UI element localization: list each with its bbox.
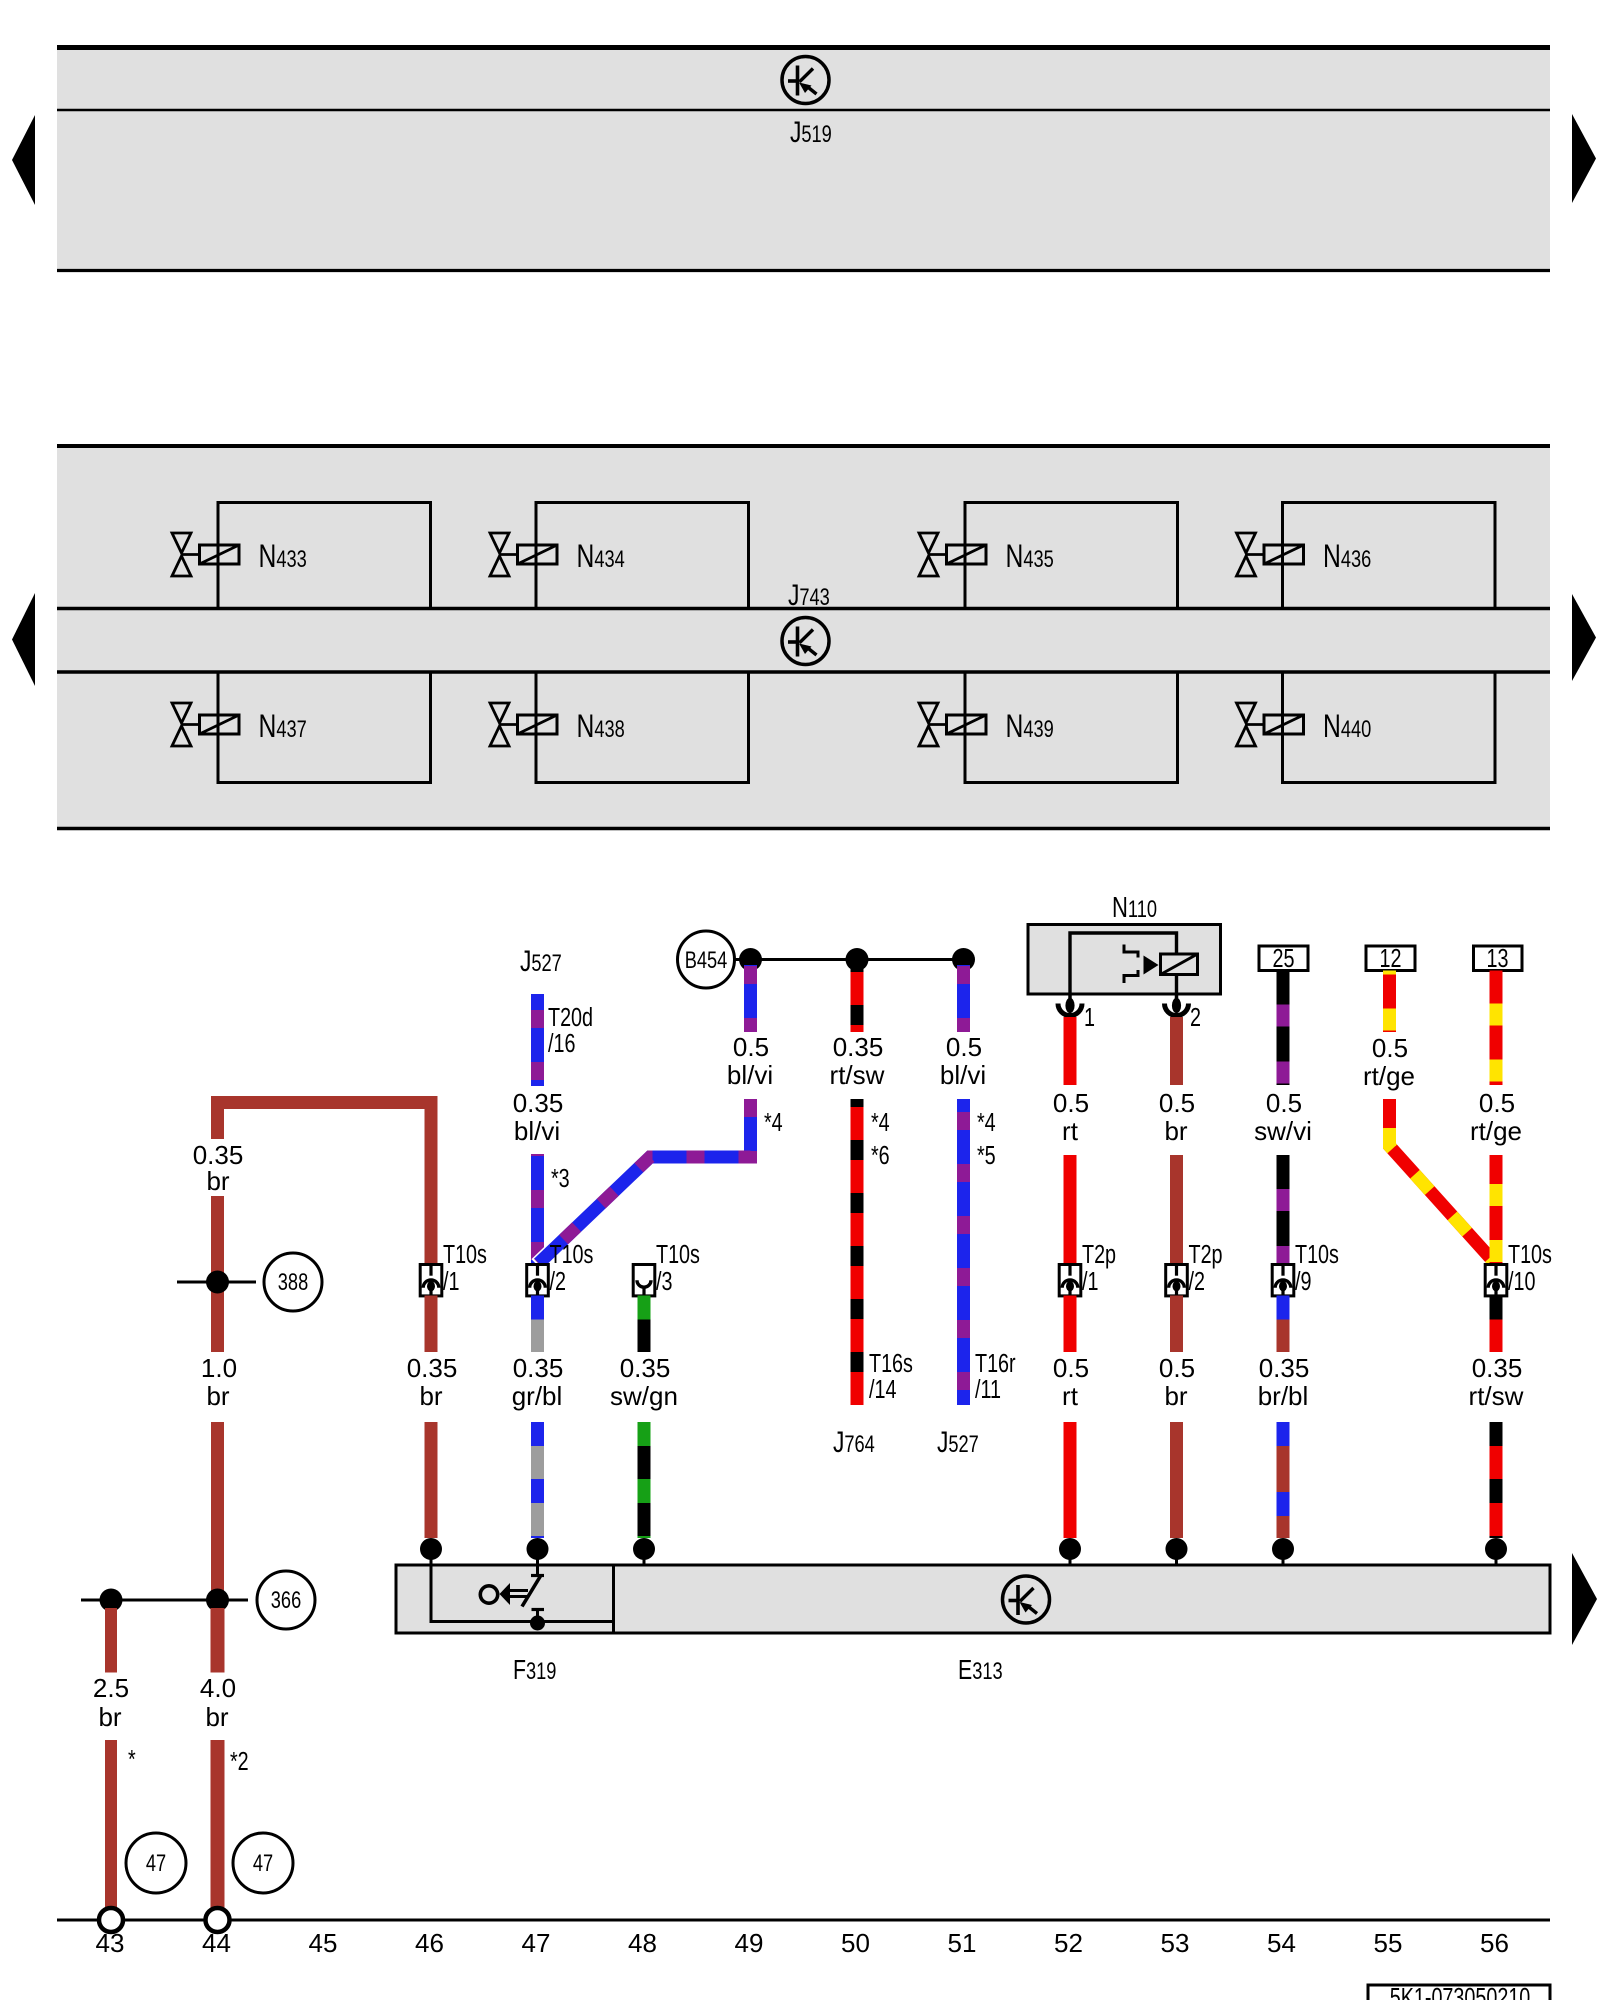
svg-text:56: 56 xyxy=(1480,1928,1509,1958)
svg-text:/1: /1 xyxy=(443,1266,459,1295)
svg-text:T10s: T10s xyxy=(656,1239,700,1268)
junction dot col51 xyxy=(952,948,975,971)
svg-text:49: 49 xyxy=(735,1928,764,1958)
valve N436 xyxy=(1237,503,1496,610)
control unit J519 band xyxy=(57,47,1550,271)
svg-text:br: br xyxy=(419,1381,442,1411)
svg-text:1: 1 xyxy=(1084,1002,1095,1031)
svg-text:T10s: T10s xyxy=(1508,1239,1552,1268)
valve N437 xyxy=(172,672,431,783)
svg-text:T10s: T10s xyxy=(1295,1239,1339,1268)
N110 internal wiring xyxy=(1070,933,1177,994)
svg-text:0.35: 0.35 xyxy=(1472,1353,1523,1383)
ground terminal col43 xyxy=(99,1908,123,1932)
wire rt/sw col56 to E313 xyxy=(1490,1422,1503,1538)
junction dot col52 at E313 xyxy=(1059,1538,1081,1565)
svg-text:12: 12 xyxy=(1380,943,1402,972)
svg-text:rt/sw: rt/sw xyxy=(1469,1381,1524,1411)
svg-text:T2p: T2p xyxy=(1082,1239,1116,1268)
svg-text:/9: /9 xyxy=(1295,1266,1311,1295)
svg-text:*6: *6 xyxy=(871,1140,890,1169)
svg-text:52: 52 xyxy=(1054,1928,1083,1958)
ground terminal col44 xyxy=(206,1908,230,1932)
node 388 junction dot xyxy=(206,1271,229,1294)
wire rt col52 below connector xyxy=(1064,1296,1077,1353)
continuation arrow right (E313) xyxy=(1572,1553,1597,1645)
svg-text:rt/ge: rt/ge xyxy=(1470,1116,1522,1146)
wire br/bl col54 to E313 xyxy=(1277,1422,1290,1538)
svg-text:J527: J527 xyxy=(937,1425,979,1459)
svg-text:/3: /3 xyxy=(656,1266,672,1295)
svg-text:5K1-073050210: 5K1-073050210 xyxy=(1390,1982,1531,2000)
svg-text:47: 47 xyxy=(253,1850,273,1877)
svg-text:45: 45 xyxy=(309,1928,338,1958)
wire br col53 below connector xyxy=(1170,1296,1183,1353)
svg-text:br: br xyxy=(205,1702,228,1732)
svg-text:rt/ge: rt/ge xyxy=(1363,1061,1415,1091)
valve N434 xyxy=(490,503,749,610)
svg-text:/2: /2 xyxy=(550,1266,566,1295)
svg-text:rt: rt xyxy=(1062,1116,1079,1146)
connector T10s/10 xyxy=(1485,1265,1507,1296)
svg-text:25: 25 xyxy=(1273,943,1295,972)
svg-text:*4: *4 xyxy=(871,1107,890,1136)
connector T2p/1 xyxy=(1059,1265,1081,1296)
wire br col46 to E313 xyxy=(425,1422,438,1538)
wire br col46 below connector xyxy=(425,1296,438,1353)
svg-text:0.5: 0.5 xyxy=(1372,1033,1408,1063)
svg-text:J743: J743 xyxy=(788,578,830,612)
wire rt/sw col56 below connector xyxy=(1490,1296,1503,1353)
svg-text:0.35: 0.35 xyxy=(1259,1353,1310,1383)
bus connection symbol in J743 xyxy=(782,618,829,665)
connector T10s/9 xyxy=(1272,1265,1294,1296)
wire br/bl col54 below connector xyxy=(1277,1296,1290,1353)
svg-text:F319: F319 xyxy=(513,1654,556,1686)
svg-text:54: 54 xyxy=(1267,1928,1296,1958)
svg-text:bl/vi: bl/vi xyxy=(727,1060,773,1090)
connector T10s/1 xyxy=(420,1265,442,1296)
svg-text:47: 47 xyxy=(146,1850,166,1877)
wire br col44 to ground xyxy=(211,1740,225,1908)
wire br col44 below node 366 xyxy=(211,1608,225,1673)
drawing number box 5K1-073050210 xyxy=(1368,1982,1550,2000)
svg-text:0.5: 0.5 xyxy=(1159,1353,1195,1383)
N110 coil xyxy=(1161,954,1198,994)
junction dot col54 at E313 xyxy=(1272,1538,1294,1565)
node line B454 xyxy=(735,958,964,961)
svg-text:48: 48 xyxy=(628,1928,657,1958)
ground circle label 47 (col43) xyxy=(126,1833,186,1893)
F319 internal wire xyxy=(431,1566,612,1622)
wire rt/sw col50 long xyxy=(851,1099,864,1405)
node 366 circle label xyxy=(257,1571,315,1629)
N110 pin 2 xyxy=(1165,994,1189,1016)
switch F319 xyxy=(480,1566,545,1631)
svg-text:0.35: 0.35 xyxy=(513,1088,564,1118)
wire rt col52 to connector xyxy=(1064,1155,1077,1264)
terminal box 25 xyxy=(1259,943,1308,972)
wire br col53 to connector xyxy=(1170,1155,1183,1264)
junction dot col56 at E313 xyxy=(1485,1538,1507,1565)
svg-text:br: br xyxy=(1164,1381,1187,1411)
svg-text:0.35: 0.35 xyxy=(407,1353,458,1383)
junction dot col47 at E313 xyxy=(527,1538,549,1565)
wire br col44 through node 388 xyxy=(211,1196,224,1352)
wire bl/vi col49 upper xyxy=(744,959,757,1032)
svg-text:rt: rt xyxy=(1062,1381,1079,1411)
svg-text:/14: /14 xyxy=(869,1374,897,1403)
svg-text:/1: /1 xyxy=(1082,1266,1098,1295)
node 388 crossbar xyxy=(177,1281,256,1284)
svg-text:br: br xyxy=(98,1702,121,1732)
svg-text:T16s: T16s xyxy=(869,1348,913,1377)
svg-text:br/bl: br/bl xyxy=(1258,1381,1309,1411)
svg-text:1.0: 1.0 xyxy=(201,1353,237,1383)
svg-text:46: 46 xyxy=(415,1928,444,1958)
node 366 junction dot col43 xyxy=(100,1589,123,1612)
wire br col53 to E313 xyxy=(1170,1422,1183,1538)
N110 driver symbol xyxy=(1124,945,1159,984)
connector T10s/2 xyxy=(527,1265,549,1296)
valve N440 xyxy=(1237,672,1496,783)
junction dot col48 at E313 xyxy=(633,1538,655,1565)
node 366 crossbar xyxy=(81,1599,248,1602)
wire rt/sw col50 upper xyxy=(851,959,864,1032)
svg-text:/2: /2 xyxy=(1189,1266,1205,1295)
svg-text:388: 388 xyxy=(278,1269,308,1296)
valve N438 xyxy=(490,672,749,783)
valve N439 xyxy=(919,672,1178,783)
wire sw/gn col48 below connector xyxy=(638,1296,651,1353)
svg-text:*2: *2 xyxy=(230,1746,249,1775)
relay N110 box xyxy=(1028,925,1221,995)
connector strip E313 / F319 bar xyxy=(396,1565,1550,1633)
svg-text:2: 2 xyxy=(1190,1002,1201,1031)
wire br col43 below node 366 xyxy=(105,1608,117,1673)
continuation arrow left (J519) xyxy=(12,115,35,205)
svg-text:0.5: 0.5 xyxy=(1159,1088,1195,1118)
wire rt/ge col55 upper xyxy=(1383,971,1396,1033)
connector T10s/3 xyxy=(633,1265,655,1296)
wire br col44 to node 366 xyxy=(211,1422,224,1594)
svg-text:T10s: T10s xyxy=(550,1239,594,1268)
connector T2p/2 xyxy=(1166,1265,1188,1296)
terminal box 13 xyxy=(1474,943,1523,972)
ground circle label 47 (col44) xyxy=(233,1833,293,1893)
junction dot col53 at E313 xyxy=(1166,1538,1188,1565)
valve N435 xyxy=(919,503,1178,610)
svg-text:0.5: 0.5 xyxy=(1479,1088,1515,1118)
svg-text:0.5: 0.5 xyxy=(1053,1088,1089,1118)
wire sw/gn col48 to E313 xyxy=(638,1422,651,1538)
wire bl/vi col47 upper xyxy=(531,994,544,1086)
svg-text:*4: *4 xyxy=(977,1107,996,1136)
continuation arrow right (J519) xyxy=(1572,114,1596,203)
wire bl/vi col49 elbow to connector T10s/2 xyxy=(538,1099,751,1266)
wire br loop col44 to col46 xyxy=(218,1103,432,1265)
svg-text:sw/vi: sw/vi xyxy=(1254,1116,1312,1146)
svg-text:*: * xyxy=(128,1744,136,1773)
svg-text:55: 55 xyxy=(1374,1928,1403,1958)
svg-text:N110: N110 xyxy=(1112,892,1157,924)
svg-text:*5: *5 xyxy=(977,1140,996,1169)
svg-text:T20d: T20d xyxy=(548,1002,593,1031)
wire rt/ge col56 to connector xyxy=(1490,1155,1503,1264)
svg-text:sw/gn: sw/gn xyxy=(610,1381,678,1411)
wire bl/vi col51 long xyxy=(957,1099,970,1405)
F319 divider xyxy=(612,1565,615,1633)
wire gr/bl col47 below connector xyxy=(531,1296,544,1353)
svg-text:*3: *3 xyxy=(551,1163,570,1192)
control unit J743 band xyxy=(57,446,1550,829)
svg-text:/16: /16 xyxy=(548,1028,575,1057)
svg-text:bl/vi: bl/vi xyxy=(940,1060,986,1090)
junction dot col46 at E313 xyxy=(420,1538,442,1565)
svg-text:43: 43 xyxy=(96,1928,125,1958)
bus connection symbol in E313 xyxy=(1003,1576,1050,1623)
svg-text:T16r: T16r xyxy=(975,1348,1016,1377)
wire bl/vi col47 to connector xyxy=(531,1154,544,1264)
svg-text:/11: /11 xyxy=(975,1374,1001,1403)
wire rt col52 upper xyxy=(1064,1017,1077,1085)
svg-text:13: 13 xyxy=(1487,943,1509,972)
wire sw/vi col54 to connector xyxy=(1277,1155,1290,1264)
svg-text:0.5: 0.5 xyxy=(1053,1353,1089,1383)
node 366 junction dot col44 xyxy=(206,1589,229,1612)
N110 pin 1 xyxy=(1058,994,1082,1016)
svg-text:*4: *4 xyxy=(764,1107,783,1136)
svg-text:0.5: 0.5 xyxy=(946,1032,982,1062)
svg-text:E313: E313 xyxy=(958,1654,1003,1686)
wire rt/ge col55 diagonal to connector T10s/10 xyxy=(1390,1099,1494,1262)
svg-text:T2p: T2p xyxy=(1189,1239,1223,1268)
svg-text:br: br xyxy=(1164,1116,1187,1146)
svg-text:50: 50 xyxy=(841,1928,870,1958)
svg-text:0.5: 0.5 xyxy=(1266,1088,1302,1118)
svg-text:0.35: 0.35 xyxy=(513,1353,564,1383)
continuation arrow left (J743) xyxy=(12,593,35,686)
svg-text:bl/vi: bl/vi xyxy=(514,1116,560,1146)
svg-text:51: 51 xyxy=(948,1928,977,1958)
svg-text:2.5: 2.5 xyxy=(93,1673,129,1703)
svg-text:J519: J519 xyxy=(790,115,832,149)
terminal box 12 xyxy=(1366,943,1415,972)
svg-text:53: 53 xyxy=(1161,1928,1190,1958)
wire gr/bl col47 to E313 xyxy=(531,1422,544,1538)
svg-text:J764: J764 xyxy=(833,1425,875,1459)
wire br col43 to ground xyxy=(105,1740,117,1908)
svg-text:/10: /10 xyxy=(1508,1266,1535,1295)
wire sw/vi col54 upper xyxy=(1277,971,1290,1086)
svg-text:B454: B454 xyxy=(685,947,728,974)
junction circle B454 xyxy=(678,931,735,988)
svg-text:rt/sw: rt/sw xyxy=(830,1060,885,1090)
wire bl/vi col51 upper xyxy=(957,959,970,1032)
node 388 circle label xyxy=(264,1253,322,1311)
svg-text:0.35: 0.35 xyxy=(620,1353,671,1383)
valve N433 xyxy=(172,503,431,610)
wire rt/ge col56 upper xyxy=(1490,971,1503,1086)
svg-text:47: 47 xyxy=(522,1928,551,1958)
svg-text:4.0: 4.0 xyxy=(200,1673,236,1703)
svg-text:0.5: 0.5 xyxy=(733,1032,769,1062)
svg-text:366: 366 xyxy=(271,1587,301,1614)
junction dot col50 xyxy=(846,948,869,971)
wire rt col52 to E313 xyxy=(1064,1422,1077,1538)
continuation arrow right (J743) xyxy=(1572,594,1596,681)
svg-text:44: 44 xyxy=(202,1928,231,1958)
bus connection symbol in J519 xyxy=(782,57,829,104)
svg-text:br: br xyxy=(206,1381,229,1411)
wire br col53 upper xyxy=(1170,1017,1183,1085)
svg-text:gr/bl: gr/bl xyxy=(512,1381,563,1411)
svg-text:T10s: T10s xyxy=(443,1239,487,1268)
svg-text:J527: J527 xyxy=(520,944,562,978)
junction dot col49 xyxy=(739,948,762,971)
ground rail xyxy=(57,1919,1550,1922)
svg-text:0.35: 0.35 xyxy=(833,1032,884,1062)
svg-text:br: br xyxy=(206,1166,229,1196)
